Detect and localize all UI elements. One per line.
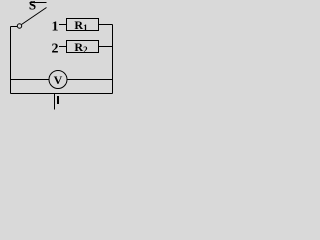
wire: voltmeter row left bbox=[11, 79, 50, 81]
wire: contact 1 to R1 bbox=[59, 24, 67, 26]
voltmeter V circle bbox=[49, 71, 67, 89]
wire: bottom horizontal bbox=[11, 93, 113, 95]
battery short plate bbox=[57, 96, 59, 104]
switch S blade bbox=[22, 8, 47, 25]
svg-text:V: V bbox=[54, 73, 63, 87]
switch top contact stub bbox=[30, 2, 47, 4]
background bbox=[0, 0, 123, 146]
wire: R1 to right bbox=[99, 24, 113, 26]
svg-text:S: S bbox=[29, 0, 36, 13]
wire: stub to switch pivot bbox=[11, 26, 18, 28]
resistor R1 box bbox=[67, 19, 99, 31]
wire: voltmeter row right bbox=[67, 79, 113, 81]
svg-text:2: 2 bbox=[52, 42, 59, 57]
svg-text:1: 1 bbox=[52, 20, 59, 35]
wire: contact 2 to R2 bbox=[59, 46, 67, 48]
wire: R2 to right bbox=[99, 46, 113, 48]
wire: right vertical bbox=[112, 25, 114, 94]
resistor R2 box bbox=[67, 41, 99, 53]
wire: left vertical bbox=[10, 27, 12, 94]
battery long plate bbox=[54, 94, 56, 110]
switch S pivot dot bbox=[17, 24, 21, 28]
